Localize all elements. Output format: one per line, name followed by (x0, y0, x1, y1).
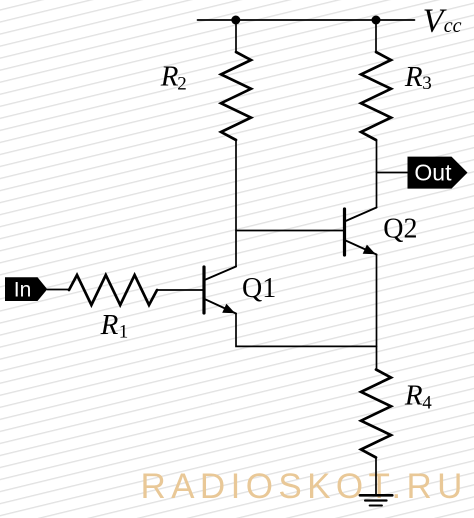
svg-text:3: 3 (422, 73, 432, 94)
svg-text:1: 1 (119, 321, 129, 342)
svg-text:R: R (160, 61, 179, 93)
svg-text:Out: Out (414, 159, 452, 185)
svg-text:4: 4 (422, 392, 432, 413)
svg-text:Q2: Q2 (383, 214, 417, 245)
svg-text:R: R (404, 61, 423, 93)
svg-text:2: 2 (177, 73, 187, 94)
svg-text:R: R (100, 309, 119, 341)
svg-text:In: In (14, 279, 32, 302)
svg-text:R: R (404, 380, 423, 412)
svg-text:cc: cc (444, 15, 462, 37)
svg-text:RADIOSKOT.RU: RADIOSKOT.RU (141, 467, 468, 506)
svg-text:Q1: Q1 (242, 273, 276, 304)
